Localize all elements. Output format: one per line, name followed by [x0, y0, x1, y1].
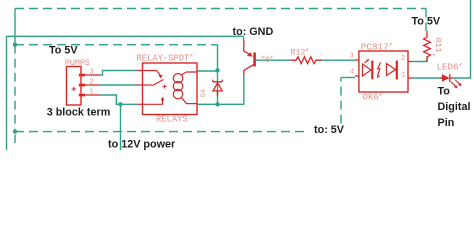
wire OK6 pin1 to LED6: [413, 77, 443, 79]
wire GND horizontal rail: [7, 35, 244, 37]
svg-text:PC817: PC817: [361, 42, 389, 53]
svg-text:R11: R11: [433, 38, 442, 53]
wire right vertical to LED: [453, 0, 471, 78]
svg-text:To 5V: To 5V: [412, 15, 441, 27]
wire pumps pin1 to relay bottom: [100, 95, 137, 104]
svg-text:T6: T6: [261, 57, 271, 65]
svg-text:3: 3: [350, 53, 354, 61]
resistor R12: [290, 57, 322, 64]
opto light bolt: [378, 63, 381, 76]
wire R12 to OK6 pin3: [318, 59, 355, 61]
wire 5V solid vertical top-left: [14, 9, 16, 45]
svg-text:RELAYS: RELAYS: [156, 115, 188, 125]
svg-text:4: 4: [350, 69, 354, 77]
wire 5V dashed drop to R11: [425, 9, 427, 32]
svg-text:R12: R12: [291, 49, 306, 58]
svg-text:2: 2: [401, 55, 405, 63]
transistor T6: [244, 40, 254, 76]
node 12V junction: [118, 102, 122, 106]
svg-text:to: GND: to: GND: [233, 26, 274, 38]
relay K RELAY-SPDT: [143, 63, 198, 115]
node 5V junction top-left: [13, 43, 17, 47]
svg-text:to: 5V: to: 5V: [314, 124, 345, 136]
LED6: [442, 74, 450, 82]
svg-text:to 12V power: to 12V power: [108, 139, 176, 151]
PUMPS plus mark: [72, 87, 76, 91]
wire 5V dashed top horizontal: [15, 8, 426, 10]
svg-text:2: 2: [90, 79, 94, 87]
relay switch and coil: [137, 71, 197, 105]
svg-text:PUMPS: PUMPS: [65, 58, 90, 68]
diode D4: [213, 80, 223, 96]
svg-text:RELAY-SPDT: RELAY-SPDT: [137, 54, 190, 64]
wire 5V dashed bottom horizontal: [15, 131, 309, 133]
node diode top junction: [215, 68, 219, 72]
wire 5V dashed drop from OK6 pin4: [340, 78, 342, 124]
wire pumps pin2 to relay: [100, 84, 137, 86]
wire 5V dashed mid horizontal: [15, 44, 218, 46]
svg-text:1: 1: [402, 72, 406, 80]
wire solid drop to diode top junction: [217, 45, 219, 105]
wire 12V vertical: [120, 104, 122, 150]
node 5V junction bottom-left: [13, 129, 17, 133]
svg-text:Pin: Pin: [438, 117, 455, 129]
opto LED: [363, 60, 373, 79]
PUMPS pin pads: [79, 74, 85, 97]
opto phototransistor: [387, 61, 397, 80]
svg-text:OK6: OK6: [363, 93, 379, 103]
wire relay coil top to diode junction: [197, 70, 218, 72]
resistor R11: [424, 31, 431, 62]
wire pumps pin3 to relay: [100, 71, 137, 76]
svg-text:To: To: [438, 86, 451, 98]
svg-text:3: 3: [90, 69, 94, 77]
optocoupler U OK6 PC817: [355, 51, 413, 92]
wire left frame vertical: [6, 36, 8, 150]
svg-text:1: 1: [90, 89, 94, 97]
svg-text:Digital: Digital: [438, 101, 471, 113]
node diode bottom junction: [215, 102, 219, 106]
svg-text:D4: D4: [200, 89, 207, 97]
connector J PUMPS: [67, 67, 101, 106]
svg-text:To 5V: To 5V: [49, 45, 78, 57]
svg-text:LED6: LED6: [437, 62, 459, 73]
wire to transistor emitter from GND rail: [243, 36, 245, 40]
wire OK6 pin2 to R11: [413, 57, 428, 62]
svg-text:3 block term: 3 block term: [47, 107, 111, 119]
wire 5V dashed left vertical: [14, 45, 16, 132]
wire bottom rail relay to transistor collector: [197, 75, 244, 104]
wire OK6 pin4 stub link: [341, 77, 355, 79]
wire transistor base to R12: [256, 59, 290, 61]
relay contact arrowheads and plus: [159, 75, 163, 79]
